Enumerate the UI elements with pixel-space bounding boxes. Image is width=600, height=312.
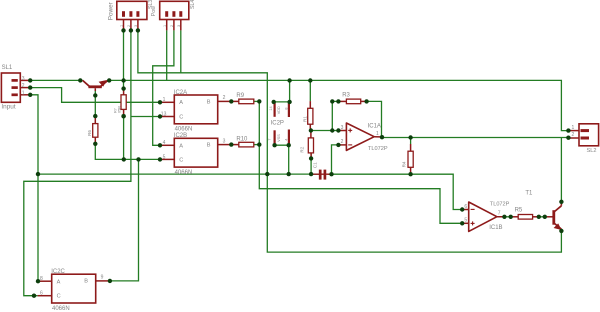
power pins IC2P VSS [275,130,289,146]
svg-text:R1: R1 [302,116,307,122]
svg-text:2: 2 [341,139,344,145]
svg-text:3: 3 [177,25,181,27]
svg-text:4066N: 4066N [52,306,70,312]
svg-text:Pow: Pow [151,6,157,16]
wire C1 right plate to R4 bottom and IC1B pin6 [328,174,463,209]
resistor R3 [338,99,366,104]
svg-text:5: 5 [163,154,166,160]
wire IC1B output to R5 [504,216,511,218]
wire R6 bottom to IC2B pin5 [95,144,160,160]
svg-text:IC2B: IC2B [174,133,187,139]
wire R5 to T1 base [540,216,547,218]
svg-text:C: C [179,114,183,120]
wire R9 output segment [254,100,259,102]
wire IC1A output to SL2 pin2 and T1 collector [380,137,568,139]
wire power pin1 down to V+ rail and R7 [123,30,125,88]
svg-text:TL072P: TL072P [368,146,388,152]
svg-text:R3: R3 [342,93,350,99]
svg-text:SL1: SL1 [2,65,13,71]
svg-text:C: C [179,158,183,164]
wire IC1A pin2 to C1 right node [332,145,339,174]
wire R4 top to output row [410,138,412,145]
analog switch IC2A [160,95,231,124]
svg-text:4066N: 4066N [175,170,193,176]
wire R3 left to IC1A pin3 node [332,101,338,130]
resistor R9 [231,99,254,104]
wire R1 R2 junction to IC1A pin3 [311,130,339,132]
wire VSS supply row IC2P [275,145,289,174]
svg-text:C1: C1 [313,162,318,168]
wire R10 output segment [254,144,259,146]
wire V+ rail to R1 top [309,81,311,102]
svg-text:1: 1 [22,90,25,96]
svg-text:3: 3 [223,138,226,144]
analog switch IC2C [38,274,110,303]
svg-text:TL072P: TL072P [490,201,510,207]
svg-text:5: 5 [464,218,467,224]
connector SL4 [160,1,189,30]
svg-text:2: 2 [127,25,131,27]
wire VDD supply row IC2P [274,80,290,102]
svg-text:R6: R6 [87,130,92,136]
svg-text:IC2P: IC2P [271,121,284,127]
resistor R7 [121,89,126,117]
resistor R6 [93,116,98,144]
svg-text:R9: R9 [236,93,244,99]
svg-text:7: 7 [267,138,271,140]
svg-text:3: 3 [134,25,138,27]
resistor R2 [308,131,313,159]
svg-text:6: 6 [464,204,467,210]
svg-text:8: 8 [284,107,288,109]
svg-text:6: 6 [40,291,43,297]
svg-text:R4: R4 [402,161,407,167]
svg-text:IC1A: IC1A [368,123,381,129]
wire R7 bottom junction down to pin5 net [123,116,125,159]
analog switch IC2B [160,138,231,167]
wire V- rail left section (node at y=174) [38,173,319,175]
capacitor C1 [312,170,332,180]
svg-text:1: 1 [163,97,166,103]
wire T1 collector up to output row [560,138,562,203]
power pins IC2P VDD [275,103,289,117]
connector SL2 [569,124,598,146]
resistor R5 [511,215,540,220]
svg-text:SL2: SL2 [587,148,597,154]
svg-text:14: 14 [269,106,273,110]
wire R3 right to IC1A output [367,101,382,137]
wire R9 R10 outputs to IC1B pin5 [259,101,462,223]
wire SL4 pin3 down to ground run [180,30,182,72]
transistor T1 [547,202,562,231]
wire SL1 pin2 to IC2A pin1 [30,88,160,103]
svg-text:3: 3 [22,76,25,82]
op-amp IC1A [338,123,380,150]
svg-text:3: 3 [341,125,344,131]
svg-text:1: 1 [376,131,379,137]
svg-text:R5: R5 [515,207,523,213]
svg-text:1: 1 [163,25,167,27]
svg-text:1: 1 [572,125,575,131]
svg-text:R10: R10 [236,136,248,142]
wire transistor base down to R6 and across to IC2B pin5 [94,91,96,117]
resistor R4 [408,144,413,174]
resistor R10 [231,142,254,147]
svg-text:T1: T1 [525,191,533,197]
svg-text:05R: 05R [118,106,122,113]
svg-text:IC1B: IC1B [489,225,502,231]
svg-text:Power: Power [108,1,115,20]
svg-text:4: 4 [284,139,288,141]
connector SL1 [1,73,29,102]
svg-text:IC2C: IC2C [51,269,65,275]
svg-text:4: 4 [163,140,166,146]
wire V+ rail from transistor emitter to SL2 pin1 [108,80,568,130]
svg-text:C: C [57,294,61,300]
svg-text:7: 7 [498,211,501,217]
svg-text:A: A [179,144,183,150]
resistor R1 [308,101,313,130]
svg-text:Input: Input [1,104,15,111]
svg-text:2: 2 [170,25,174,27]
wire SL1 pin1 down to IC2C pin8 [30,95,38,281]
svg-text:2: 2 [572,132,575,138]
svg-text:A: A [179,100,183,106]
svg-text:SL4: SL4 [190,0,196,9]
op-amp IC1B [462,202,504,231]
svg-text:VSS: VSS [277,134,281,142]
svg-text:B: B [84,279,88,285]
svg-text:R2: R2 [299,146,304,152]
svg-text:VDD: VDD [277,106,281,114]
wire V+ rail from SL1 pin3 to transistor collector [30,79,82,81]
svg-text:2: 2 [223,95,226,101]
svg-text:1: 1 [120,25,124,27]
svg-text:4066N: 4066N [175,127,193,133]
wire IC2C pin9 up to pin5 net [110,159,139,281]
wire power pin3 to V- vertical and T1 emitter return [138,30,562,252]
svg-text:IC2A: IC2A [174,90,187,96]
svg-text:A: A [57,279,61,285]
wire power pin2 down and around to IC2C pin6 [24,30,131,295]
svg-text:2: 2 [22,83,25,89]
svg-text:B: B [207,99,211,105]
connector SL3 Power [117,1,147,30]
wire power pin2 branch to IC2A pin13 [131,116,160,118]
svg-text:B: B [207,143,211,149]
wire SL4 pin1 to V+ rail [166,30,168,80]
wire SL4 pin2 to IC2B pin4 [153,30,174,145]
transistor Q1 [83,80,108,91]
svg-text:8: 8 [40,276,43,282]
wire R2 bottom to V- node [310,153,312,174]
svg-text:9: 9 [101,275,104,281]
